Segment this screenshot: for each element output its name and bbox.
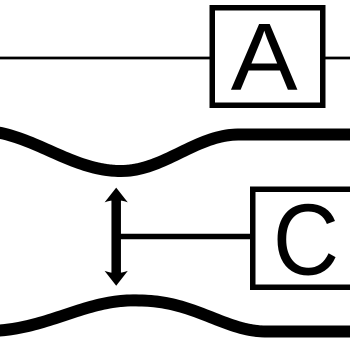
bottom vessel wall [0, 300, 350, 331]
svg-text:A: A [231, 3, 299, 110]
arrowhead up [105, 188, 128, 203]
wire through box A [0, 57, 350, 60]
top vessel wall [0, 131, 350, 171]
arrow shaft [111, 196, 121, 277]
svg-text:C: C [273, 184, 339, 296]
arrowhead down [105, 271, 128, 286]
wire to box C [114, 234, 254, 240]
box C [253, 189, 350, 287]
box A [212, 8, 323, 106]
